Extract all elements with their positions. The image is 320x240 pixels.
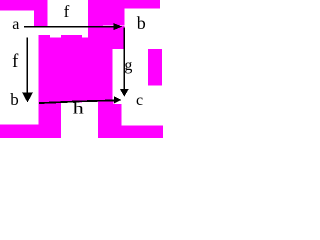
gap column between a-box and f-box bbox=[34, 0, 48, 28]
commutative diagram: nodes a,b,b,c with arrows f,f,g,h over magenta transparency background bbox=[0, 0, 163, 138]
top band over b-box bbox=[125, 0, 161, 9]
bottom arrow b->c shaft (h), slightly sloped bbox=[39, 100, 114, 105]
center-left column bbox=[39, 35, 50, 138]
center block right part bbox=[88, 49, 113, 101]
svg-text:f: f bbox=[12, 51, 19, 72]
center block above bottom arrow bbox=[61, 35, 82, 102]
svg-text:c: c bbox=[136, 92, 143, 109]
magenta background regions bbox=[0, 0, 163, 138]
block below bottom arrow right of h-box bbox=[98, 102, 114, 139]
svg-text:g: g bbox=[124, 57, 132, 74]
left arrowhead bbox=[22, 92, 33, 102]
region right of f-box below top arrow bbox=[88, 26, 125, 49]
right arrowhead bbox=[120, 89, 129, 97]
svg-text:b: b bbox=[137, 13, 146, 33]
top arrowhead bbox=[114, 23, 123, 30]
bottom band right bbox=[122, 125, 164, 138]
top arrow a->b shaft bbox=[24, 26, 115, 28]
svg-text:f: f bbox=[64, 2, 70, 21]
svg-text:a: a bbox=[12, 16, 19, 33]
magenta block right side between b-box and c-box bbox=[148, 49, 162, 86]
black ink bbox=[22, 23, 129, 104]
bottom band left bbox=[0, 125, 61, 139]
band right of f-box above top arrow bbox=[88, 0, 103, 26]
left arrow a->b shaft bbox=[27, 38, 29, 94]
bottom arrowhead bbox=[114, 96, 122, 103]
top band over a-box bbox=[0, 0, 34, 11]
labels bbox=[10, 2, 146, 118]
white base bbox=[0, 0, 163, 138]
svg-text:h: h bbox=[73, 101, 84, 118]
svg-text:b: b bbox=[10, 90, 18, 109]
right arrow b->c shaft (g) bbox=[124, 28, 126, 90]
